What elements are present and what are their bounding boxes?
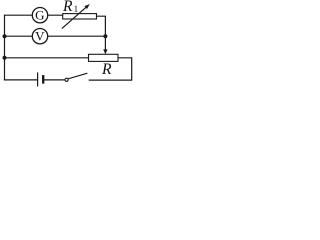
svg-text:G: G	[35, 8, 44, 23]
svg-text:R: R	[62, 0, 73, 15]
svg-text:V: V	[35, 29, 45, 44]
svg-text:R: R	[101, 61, 112, 78]
svg-text:1: 1	[74, 4, 79, 14]
